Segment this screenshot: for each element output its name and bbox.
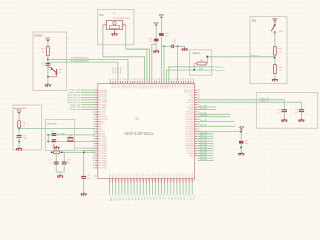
svg-text:P6.2: P6.2 (181, 84, 183, 88)
svg-text:R36: R36 (278, 67, 281, 69)
capacitor C16 (53, 140, 55, 141)
svg-text:4.7u: 4.7u (277, 112, 281, 114)
svg-text:60: 60 (190, 179, 192, 181)
svg-text:P2.5: P2.5 (125, 84, 127, 88)
ground (bsl) (272, 78, 278, 81)
svg-text:58: 58 (164, 78, 166, 80)
svg-text:42: 42 (135, 179, 137, 181)
svg-text:Y2: Y2 (113, 13, 115, 15)
svg-text:C19: C19 (87, 175, 90, 177)
svg-text:53: 53 (176, 78, 178, 80)
svg-text:T_m4: T_m4 (131, 195, 133, 200)
svg-text:R31: R31 (54, 149, 57, 151)
wire Target_sw (169, 67, 214, 81)
wire bottom net 5 (124, 183, 126, 195)
svg-text:P3.0: P3.0 (143, 174, 145, 178)
capacitor C14 (18, 129, 20, 136)
svg-text:T_a1: T_a1 (155, 195, 157, 199)
junction RST top (163, 46, 165, 48)
svg-text:41: 41 (132, 179, 134, 181)
svg-text:R35: R35 (278, 48, 281, 50)
svg-text:C14: C14 (23, 135, 26, 137)
junction bsl (274, 57, 276, 59)
wire bottom net 14 (151, 183, 153, 195)
svg-text:57: 57 (181, 179, 183, 181)
wire into R34 (206, 57, 208, 63)
capacitor C13 (47, 62, 49, 63)
svg-text:P3.3: P3.3 (152, 174, 154, 178)
wire bottom net 27 (191, 183, 193, 195)
wire curtain a (126, 49, 150, 81)
wire RST net out 1 (48, 58, 128, 60)
svg-text:52: 52 (178, 78, 180, 80)
svg-text:P1.2: P1.2 (174, 174, 176, 178)
wire V18 (197, 102, 301, 110)
svg-text:P3.7: P3.7 (164, 174, 166, 178)
svg-text:P3.6: P3.6 (147, 84, 149, 88)
wire right net 14 (197, 152, 213, 154)
svg-text:57: 57 (166, 78, 168, 80)
wire bottom net 7 (130, 183, 132, 195)
wire reset drop 1 (127, 59, 129, 81)
ground (C20) (281, 119, 287, 122)
marker blue 1 (207, 56, 209, 58)
svg-text:71: 71 (132, 78, 134, 80)
wire bottom net 22 (176, 183, 178, 195)
wire right net 6 (197, 133, 213, 135)
svg-text:T_02: T_02 (177, 195, 179, 199)
svg-text:P2.6: P2.6 (127, 84, 129, 88)
svg-text:60: 60 (159, 78, 161, 80)
svg-text:C17: C17 (49, 160, 52, 162)
svg-text:51: 51 (181, 78, 183, 80)
svg-text:61: 61 (95, 175, 97, 177)
svg-text:100n: 100n (67, 162, 71, 164)
wire right net 17 (197, 160, 213, 162)
svg-text:T_b1: T_b1 (146, 195, 148, 199)
svg-text:P3.6: P3.6 (161, 174, 163, 178)
hierarchy box BSL (250, 17, 287, 84)
wire bottom net 20 (170, 183, 172, 195)
wire VCC1 to R32 (160, 18, 162, 32)
svg-text:80: 80 (110, 78, 112, 80)
svg-text:RST/NMI/SBWTDIO: RST/NMI/SBWTDIO (71, 61, 90, 63)
ground (R37) (238, 152, 244, 155)
svg-text:P8.1: P8.1 (112, 174, 114, 178)
svg-text:P4.5: P4.5 (164, 84, 166, 88)
ferrite bead FB1 (18, 121, 21, 128)
svg-text:67: 67 (142, 78, 144, 80)
svg-text:T_t7: T_t7 (164, 195, 167, 199)
resistor R37 (239, 141, 243, 144)
svg-text:P3.5: P3.5 (158, 174, 160, 178)
svg-text:PJ.2: PJ.2 (115, 84, 117, 88)
svg-text:T_a0: T_a0 (152, 195, 154, 199)
svg-text:4.7k: 4.7k (278, 70, 281, 72)
svg-text:T_10: T_10 (189, 195, 191, 199)
junction xin (47, 134, 49, 136)
svg-text:T_m5: T_m5 (134, 195, 136, 200)
resistor R32 (159, 33, 164, 36)
svg-text:77: 77 (117, 78, 119, 80)
ground (C19) (81, 193, 87, 196)
svg-text:39: 39 (126, 179, 128, 181)
svg-text:T_t5: T_t5 (158, 195, 161, 199)
hierarchy box LFXTCLK (45, 120, 74, 151)
svg-text:T_b0: T_b0 (143, 195, 145, 199)
svg-text:P3.4: P3.4 (142, 84, 144, 88)
wire VCORE row (52, 151, 96, 153)
svg-text:52: 52 (165, 179, 167, 181)
U6 right pins (195, 89, 198, 91)
svg-text:T_m2: T_m2 (125, 195, 127, 200)
svg-text:P3.5: P3.5 (144, 84, 146, 88)
wire C13 to gnd node (47, 65, 49, 77)
svg-text:P1.3: P1.3 (177, 174, 179, 178)
svg-text:P4.1: P4.1 (154, 84, 156, 88)
wire AVCC to chip (19, 128, 95, 130)
svg-text:76: 76 (120, 78, 122, 80)
capacitor C18 (63, 152, 65, 162)
resistor R34 (197, 62, 206, 65)
ground (analog) (16, 147, 22, 150)
svg-text:47: 47 (150, 179, 152, 181)
svg-text:P7.1: P7.1 (188, 84, 190, 88)
svg-text:47k: 47k (41, 51, 44, 53)
wire bottom net 1 (112, 183, 114, 195)
svg-text:P2.7: P2.7 (140, 174, 142, 178)
svg-text:P7.2: P7.2 (190, 84, 192, 88)
svg-text:59: 59 (187, 179, 189, 181)
svg-text:50: 50 (159, 179, 161, 181)
wire rst drop b (177, 46, 179, 81)
svg-text:CSTCE16M0V53-R0: CSTCE16M0V53-R0 (113, 18, 130, 20)
U6 left pins (95, 89, 98, 91)
svg-text:Target_sbw: Target_sbw (215, 69, 226, 72)
wire R36 to ground (274, 74, 276, 79)
hierarchy box XT2 (97, 9, 133, 44)
svg-text:T_1c: T_1c (186, 195, 188, 199)
svg-text:MSP430F552x: MSP430F552x (124, 131, 154, 136)
wire R17 to RST node (47, 56, 49, 62)
svg-text:PJ.3: PJ.3 (118, 84, 120, 88)
svg-text:46: 46 (147, 179, 149, 181)
switch SW2 (51, 67, 53, 68)
wire bottom net 23 (179, 183, 181, 195)
wire right net 12 (197, 147, 213, 149)
wire R35 to junction (274, 55, 276, 64)
svg-text:P3.4: P3.4 (155, 174, 157, 178)
svg-text:P3.2: P3.2 (149, 174, 151, 178)
wire bottom net 4 (121, 183, 123, 195)
wire C21 to ground (300, 112, 302, 120)
wire TEST branch (152, 43, 156, 45)
resistor R35 (273, 46, 276, 55)
svg-text:P3.1: P3.1 (146, 174, 148, 178)
wire bottom net 15 (155, 183, 157, 195)
svg-text:P2.7: P2.7 (130, 84, 132, 88)
svg-text:BSL: BSL (252, 20, 257, 23)
svg-text:DVSS: DVSS (192, 172, 194, 178)
wire bottom net 13 (148, 183, 150, 195)
svg-text:10n: 10n (49, 162, 52, 164)
resistor R31 (54, 151, 60, 154)
wire left low 1 (82, 147, 95, 149)
junction xout (47, 141, 49, 143)
svg-text:48: 48 (188, 78, 190, 80)
wire R33 to ground (155, 42, 157, 50)
svg-text:Tgt_p61: Tgt_p61 (200, 107, 208, 110)
svg-text:37: 37 (120, 179, 122, 181)
svg-text:P8.0: P8.0 (109, 174, 111, 178)
wire left net 7 (81, 106, 95, 108)
svg-text:51: 51 (162, 179, 164, 181)
svg-text:T_m0: T_m0 (118, 195, 120, 200)
svg-text:38: 38 (123, 179, 125, 181)
svg-text:T_m6: T_m6 (137, 195, 139, 200)
wire xin-xout link (47, 135, 49, 142)
wire FB1 to AVCC node (18, 127, 20, 130)
svg-text:P1.1: P1.1 (171, 174, 173, 178)
wire Target_rst (208, 56, 274, 58)
wire bottom net 2 (115, 183, 117, 195)
svg-text:1: 1 (104, 23, 105, 25)
capacitor C19 (83, 152, 85, 176)
ground (xt2) (112, 33, 118, 36)
svg-text:P4.4: P4.4 (161, 84, 163, 88)
svg-text:62: 62 (92, 175, 94, 177)
svg-text:2: 2 (116, 31, 117, 33)
U6 top pins (110, 81, 112, 84)
resonator Y2 body (107, 20, 123, 29)
svg-text:100: 100 (165, 35, 168, 37)
resistor R33 (154, 39, 159, 42)
wire VCC to R17 (47, 42, 49, 47)
wire right net 8 (197, 138, 213, 140)
junction AVCC (18, 128, 20, 130)
wire right net 4 (197, 121, 234, 123)
wire left net 3 (81, 96, 95, 98)
svg-text:T_t6: T_t6 (161, 195, 164, 199)
wire bottom net 16 (158, 183, 160, 195)
wire bottom net 21 (173, 183, 175, 195)
capacitor C15 (53, 134, 55, 135)
wire bottom net 17 (161, 183, 163, 195)
svg-text:PJ.0: PJ.0 (110, 84, 112, 88)
ground (lfxt) (53, 143, 55, 146)
svg-text:54: 54 (172, 179, 174, 181)
wire bottom net 26 (188, 183, 190, 195)
hierarchy box USB caps (257, 93, 318, 129)
wire left net 1 (81, 92, 95, 94)
svg-text:69: 69 (137, 78, 139, 80)
wire XT2OUT run (126, 49, 147, 81)
wire bottom net 12 (145, 183, 147, 195)
svg-text:68: 68 (139, 78, 141, 80)
junction RST node (47, 59, 49, 61)
wire C20 to ground (283, 112, 285, 120)
svg-text:FB1: FB1 (23, 123, 26, 125)
wire bottom net 6 (127, 183, 129, 195)
wire right net 1 (197, 108, 216, 110)
svg-text:TEST: TEST (122, 84, 124, 90)
svg-text:72: 72 (130, 78, 132, 80)
svg-text:T_03: T_03 (180, 195, 182, 199)
svg-text:56: 56 (178, 179, 180, 181)
svg-text:P4.0: P4.0 (152, 84, 154, 88)
wire left net 6 (81, 104, 95, 106)
svg-text:61: 61 (193, 179, 195, 181)
wire rst drop a (163, 46, 165, 81)
wire R37 to ground (240, 144, 242, 153)
svg-text:Tgt_p63: Tgt_p63 (200, 114, 208, 117)
svg-text:T_ca1: T_ca1 (115, 195, 117, 200)
svg-text:44: 44 (141, 179, 143, 181)
svg-text:63: 63 (152, 78, 154, 80)
wire VUSB (197, 100, 284, 110)
hierarchy box Analog VCC (13, 105, 42, 150)
svg-text:55: 55 (171, 78, 173, 80)
wire right net 7 (197, 135, 213, 137)
svg-text:T_m7: T_m7 (140, 195, 142, 200)
wire Target_sbw (166, 70, 214, 81)
svg-text:RST/NMI/SBWTDIO: RST/NMI/SBWTDIO (71, 58, 90, 60)
svg-text:C18: C18 (67, 160, 70, 162)
svg-text:P1.4: P1.4 (180, 174, 182, 178)
svg-text:P7.0: P7.0 (186, 84, 188, 88)
svg-text:C15: C15 (51, 131, 54, 133)
svg-text:1k: 1k (23, 125, 25, 127)
wire C19 to ground (83, 178, 85, 193)
svg-text:P2.4/TA2: P2.4/TA2 (99, 167, 107, 170)
svg-text:R34: R34 (200, 60, 203, 62)
switch SW3 (274, 22, 276, 25)
svg-text:45: 45 (144, 179, 146, 181)
svg-text:P7.3: P7.3 (193, 84, 195, 88)
ground (reset) (47, 77, 49, 85)
U6 bottom pins (109, 179, 111, 184)
wire left net 0 (81, 89, 95, 91)
svg-text:T_00: T_00 (171, 195, 173, 199)
svg-text:40: 40 (129, 179, 131, 181)
svg-text:P1.6: P1.6 (186, 174, 188, 178)
wire left net 4 (81, 99, 95, 101)
svg-text:P2.0: P2.0 (118, 174, 120, 178)
wire C14 to ground (18, 137, 20, 148)
svg-text:Target_usb: Target_usb (259, 97, 270, 100)
svg-text:Target_rst: Target_rst (250, 54, 259, 57)
wire left net 8 (81, 109, 95, 111)
wire XT2IN run (103, 57, 145, 81)
resistor R36 (273, 65, 276, 74)
capacitor C17 (55, 152, 57, 162)
wire left net 2 (81, 94, 95, 96)
svg-text:P3.7: P3.7 (149, 84, 151, 88)
svg-text:470n: 470n (87, 178, 91, 180)
wire XT2OUT (125, 25, 127, 49)
svg-text:0.1u: 0.1u (295, 112, 299, 114)
svg-text:48: 48 (153, 179, 155, 181)
wire bottom net 9 (136, 183, 138, 195)
wire vcc stem (240, 130, 242, 140)
svg-text:T_b2: T_b2 (149, 195, 151, 199)
svg-text:C21: C21 (295, 110, 298, 112)
wire bottom net 8 (133, 183, 135, 195)
ground (test pulldown) (153, 50, 159, 53)
wire XT2IN (102, 25, 104, 57)
svg-text:P2.6: P2.6 (137, 174, 139, 178)
svg-text:T_cb1: T_cb1 (112, 195, 114, 200)
wire VCC to FB1 (18, 114, 20, 121)
svg-text:47k: 47k (245, 143, 248, 145)
svg-text:75: 75 (122, 78, 124, 80)
wire C12 to ground (174, 46, 185, 48)
wire right net 2 (197, 113, 230, 115)
svg-text:100: 100 (149, 41, 152, 43)
junction sbw (177, 46, 179, 48)
wire bottom net 25 (185, 183, 187, 195)
svg-text:1n: 1n (173, 42, 175, 44)
wire bottom net 0 (109, 183, 111, 195)
svg-text:55: 55 (175, 179, 177, 181)
svg-text:50: 50 (183, 78, 185, 80)
junction pullup bottom (240, 147, 242, 149)
wire RST net out 2 (48, 61, 118, 63)
svg-text:P4.3: P4.3 (159, 84, 161, 88)
svg-text:P6.1: P6.1 (178, 84, 180, 88)
svg-text:P5.6: P5.6 (171, 84, 173, 88)
no-connect marks (112, 68, 114, 74)
svg-text:Tgt_p75: Tgt_p75 (200, 124, 208, 127)
svg-text:Rst_l2: Rst_l2 (76, 149, 83, 152)
svg-text:P2.1: P2.1 (122, 174, 124, 178)
ground (C21) (298, 119, 304, 122)
svg-text:R17: R17 (41, 48, 44, 50)
svg-text:100n: 100n (23, 138, 27, 140)
svg-text:33: 33 (93, 167, 95, 169)
svg-text:C20: C20 (278, 110, 281, 112)
wire right net 16 (197, 157, 213, 159)
svg-text:58: 58 (184, 179, 186, 181)
svg-text:Speed: Speed (192, 52, 200, 55)
resonator pins 1 2 3 (103, 24, 107, 26)
svg-text:79: 79 (113, 78, 115, 80)
svg-text:P8.2: P8.2 (115, 174, 117, 178)
svg-text:61: 61 (156, 78, 158, 80)
wire right net 10 (197, 143, 213, 145)
svg-text:U6: U6 (135, 116, 139, 120)
svg-text:Target_a14: Target_a14 (70, 108, 81, 111)
wire VCC2 to R33 (155, 26, 157, 38)
svg-text:TEST: TEST (189, 155, 195, 157)
svg-text:P3.3: P3.3 (139, 84, 141, 88)
junction vcore right (61, 152, 63, 154)
svg-text:P1.7: P1.7 (189, 174, 191, 178)
wire right net 11 (197, 145, 213, 147)
svg-text:Target_sw: Target_sw (215, 66, 225, 69)
ground (decoupling) (57, 175, 63, 178)
wire SW3 to R35 (274, 33, 276, 46)
wire SW2 leads (48, 66, 52, 68)
wire bottom net 3 (118, 183, 120, 195)
junction pullup top (240, 131, 242, 133)
svg-text:P2.2: P2.2 (125, 174, 127, 178)
svg-text:P2.3: P2.3 (128, 174, 130, 178)
junction avss (18, 141, 19, 142)
hierarchy box Speed (190, 50, 212, 75)
wire RST column (160, 36, 162, 81)
svg-text:T_b00: T_b00 (109, 195, 111, 200)
